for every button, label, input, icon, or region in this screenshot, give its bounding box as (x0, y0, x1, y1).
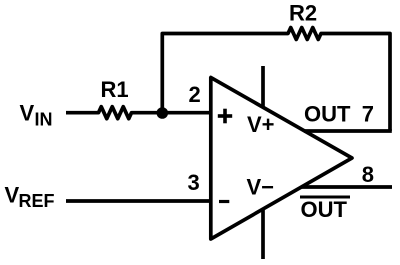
svg-text:R1: R1 (101, 77, 129, 102)
svg-text:V: V (20, 101, 35, 126)
svg-text:3: 3 (188, 170, 200, 195)
svg-text:V−: V− (247, 175, 275, 200)
svg-text:V: V (5, 183, 20, 208)
svg-text:OUT: OUT (301, 197, 348, 222)
svg-text:OUT: OUT (304, 101, 351, 126)
svg-text:8: 8 (362, 162, 374, 187)
svg-text:IN: IN (35, 110, 53, 130)
svg-text:REF: REF (19, 191, 55, 211)
svg-text:2: 2 (189, 82, 201, 107)
svg-text:7: 7 (362, 102, 374, 127)
svg-text:R2: R2 (289, 0, 317, 25)
svg-text:V+: V+ (247, 112, 275, 137)
